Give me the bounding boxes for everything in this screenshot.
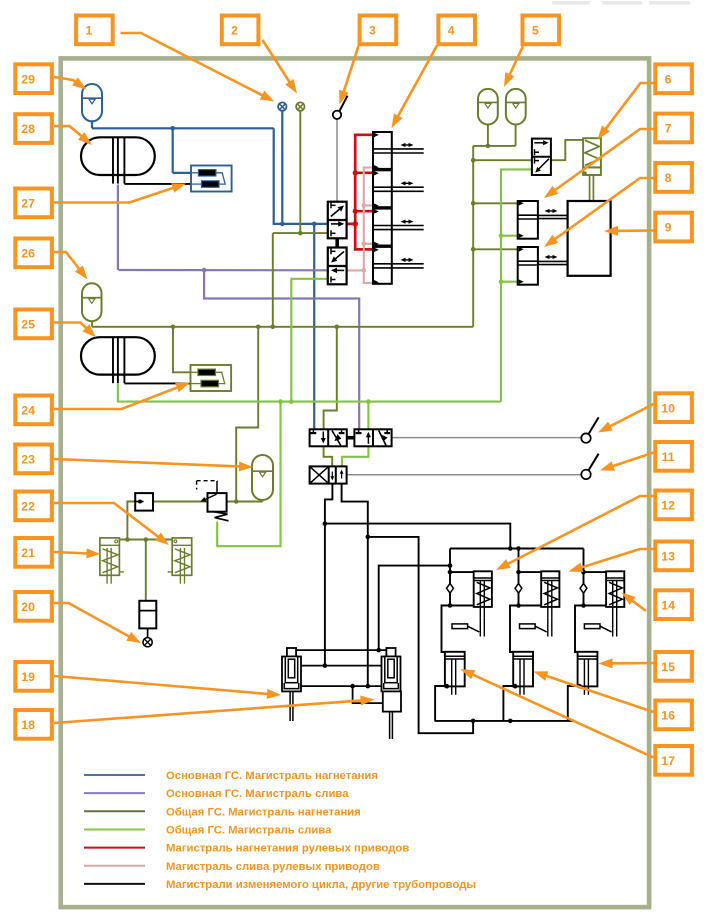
check box on regulator line — [135, 493, 153, 511]
callout box 20 — [15, 592, 52, 621]
callout arrow 15 — [606, 662, 653, 665]
svg-text:29: 29 — [21, 72, 35, 86]
wire gray: valve B to limit switch 10 — [392, 437, 582, 439]
wire black: shutoff valve left output — [325, 484, 333, 666]
legend line 1 — [84, 774, 145, 776]
wire olive: branch to actuator 8 — [473, 248, 518, 250]
node black junction 367.8,536.9 — [366, 535, 371, 540]
wire black: booster column at 518.5 — [518, 549, 520, 606]
wire olive: common pressure horizontal bus — [92, 326, 473, 328]
wire pink: branch to steering cylinder 2 return — [364, 204, 373, 206]
wire olive: drop to drain unit 20 — [145, 540, 147, 601]
wire olive: pilot valve D to relief valve 6 — [551, 140, 583, 160]
callout arrow 7 — [550, 129, 653, 194]
svg-text:5: 5 — [532, 24, 539, 38]
distribution valve V2 — [328, 248, 347, 285]
callout arrow 14 — [628, 597, 646, 611]
legend line 5 — [84, 847, 145, 849]
actuator 8 — [518, 247, 538, 285]
node blue junction at 314.2,223.9 — [312, 222, 317, 227]
wire black: branch to booster valve top — [450, 571, 474, 573]
wire black: pump 25 to cooler 24 — [124, 382, 190, 384]
wire olive: accumulator 23 stem — [262, 500, 264, 502]
wire black: column to booster cylinder — [442, 606, 451, 653]
changeover valve B — [354, 429, 391, 446]
callout box 15 — [655, 652, 692, 681]
wire blue: down to distribution valve V1 — [274, 128, 328, 224]
cooler 24 — [191, 365, 232, 391]
wire black: booster column at 583.5 — [583, 549, 585, 606]
wire olive: small box feed from filters — [127, 502, 135, 540]
svg-text:16: 16 — [661, 709, 675, 723]
wire blue: accumulator 29 to main pressure run — [91, 121, 93, 128]
wire black: booster cylinder to return bus — [503, 686, 513, 721]
valve V1-V2 mechanical link — [335, 238, 339, 247]
wire black: booster feed bus — [450, 548, 584, 550]
actuator 7 — [518, 201, 538, 239]
limit switch 11 — [581, 470, 590, 479]
callout arrow 25 — [54, 323, 91, 333]
callout arrow 13 — [576, 549, 654, 569]
wire purple: branch to changeover valve B — [204, 270, 359, 429]
wire red: steering pressure bus — [355, 135, 372, 250]
wire olive: valve A to shutoff valve — [324, 446, 333, 466]
wire black: booster column at 450 — [449, 549, 451, 606]
callout box 25 — [15, 310, 52, 339]
callout box 12 — [655, 491, 692, 520]
svg-text:22: 22 — [21, 500, 35, 514]
wire red: branch to steering cylinder 3 — [355, 210, 372, 213]
booster control valve — [474, 571, 492, 607]
callout box 17 — [655, 746, 692, 775]
relief valve 6 — [583, 138, 601, 167]
svg-text:12: 12 — [661, 499, 675, 513]
wire black: branch to booster assemblies header — [325, 524, 510, 549]
svg-text:23: 23 — [21, 453, 35, 467]
svg-text:15: 15 — [661, 660, 675, 674]
svg-text:25: 25 — [21, 318, 35, 332]
wire olive: branch down to changeover valve A — [324, 327, 337, 430]
wire pink: steering return bus — [364, 168, 373, 283]
callout box 7 — [655, 114, 692, 143]
wire olive: accumulators 5 header — [473, 145, 515, 147]
pump 25 — [81, 337, 155, 374]
callout box 13 — [655, 542, 692, 571]
wire black: column to booster cylinder — [510, 606, 519, 653]
callout arrow 27 — [54, 186, 179, 203]
callout box 10 — [655, 393, 692, 422]
callout box 1 — [76, 16, 113, 45]
callout arrow 16 — [541, 674, 654, 712]
callout box 29 — [15, 64, 52, 93]
svg-text:4: 4 — [448, 24, 455, 38]
pump 28 — [81, 137, 155, 175]
valve A-B mechanical link — [347, 436, 355, 440]
check valve diamond — [447, 583, 454, 593]
wire olive: regulator line small box to regulator — [153, 501, 208, 503]
wire light-green: branch up to valve V2 — [291, 279, 328, 402]
callout box 28 — [15, 114, 52, 143]
drain unit 20 — [139, 601, 156, 629]
wire black: booster cylinder to return bus — [568, 686, 578, 721]
legend line 7 — [84, 883, 145, 885]
callout box 26 — [15, 239, 52, 268]
callout box 5 — [523, 16, 560, 45]
pressure regulator — [208, 493, 227, 512]
accumulator 5 left — [478, 89, 498, 125]
wire olive: branch to actuator 7 — [473, 202, 518, 204]
legend line 2 — [84, 792, 145, 794]
callout arrow 19 — [54, 676, 273, 694]
callout box 23 — [15, 445, 52, 474]
wire pink: branch to steering cylinder 3 return — [364, 243, 373, 245]
wire olive: branch down to pressure regulator — [236, 327, 258, 502]
svg-text:Основная ГС. Магистраль нагнет: Основная ГС. Магистраль нагнетания — [166, 770, 378, 782]
wire black: tail actuator link to assembly column — [379, 566, 450, 651]
callout arrow 21 — [54, 552, 93, 554]
node black junction 324.9,523.6 — [323, 521, 328, 526]
svg-text:8: 8 — [665, 171, 672, 185]
accumulator 26 — [82, 283, 102, 321]
callout box 16 — [655, 701, 692, 730]
wire red: branch to steering cylinder 2 — [355, 171, 372, 174]
svg-text:Общая ГС. Магистраль слива: Общая ГС. Магистраль слива — [166, 824, 332, 836]
callout box 18 — [15, 710, 52, 739]
legend line 4 — [84, 828, 145, 830]
callout arrow 12 — [503, 496, 654, 567]
callout box 6 — [655, 64, 692, 93]
booster cylinder — [513, 652, 533, 687]
svg-text:21: 21 — [21, 546, 35, 560]
wire light-green: branch down to regulator drain — [217, 402, 280, 547]
booster feedback lever — [452, 624, 468, 629]
callout arrow 23 — [54, 459, 245, 467]
callout arrow 29 — [54, 77, 80, 85]
callout arrow 24 — [54, 385, 183, 409]
callout box 3 — [360, 16, 397, 45]
shutoff solenoid valve — [310, 466, 347, 483]
callout box 22 — [15, 492, 52, 521]
node blue junction at 172.7,128.3 — [170, 126, 175, 131]
svg-text:28: 28 — [21, 122, 35, 136]
callout box 9 — [655, 213, 692, 242]
callout arrow 2 — [263, 40, 293, 87]
svg-text:Общая ГС. Магистраль нагнетани: Общая ГС. Магистраль нагнетания — [166, 806, 361, 818]
wire black: column to booster cylinder — [575, 606, 584, 653]
wire light-green: branch to actuator 7 return — [501, 235, 518, 237]
wire black: branch to booster valve bottom — [519, 605, 542, 607]
wire light-green: pump 25 case drain — [118, 384, 501, 402]
svg-text:14: 14 — [661, 598, 675, 612]
svg-text:24: 24 — [21, 404, 35, 418]
wire blue: branch down to cooler 27 — [172, 128, 174, 173]
svg-text:6: 6 — [665, 72, 672, 86]
node olive at 236.2,501.5 — [234, 499, 239, 504]
callout box 21 — [15, 538, 52, 567]
wire gray: shutoff valve to limit switch 11 — [347, 474, 582, 476]
callout box 24 — [15, 396, 52, 425]
filter 21 — [100, 538, 120, 575]
svg-text:27: 27 — [21, 197, 35, 211]
node red junction at valve V1 feed — [352, 221, 358, 227]
callout arrow 10 — [605, 404, 654, 429]
callout arrow 22 — [54, 503, 163, 540]
callout arrow 28 — [54, 126, 86, 140]
wire olive: accumulator 26 stem — [91, 321, 93, 327]
svg-text:Основная ГС. Магистраль слива: Основная ГС. Магистраль слива — [166, 788, 349, 800]
wire black: branch to booster valve top — [584, 571, 607, 573]
svg-text:11: 11 — [662, 450, 675, 464]
wire gray: pressure switch feed from gauge switch 3 — [336, 119, 338, 201]
booster cylinder — [578, 652, 598, 687]
callout arrow 11 — [607, 453, 653, 469]
wire black: branch to booster valve bottom — [450, 605, 474, 607]
svg-text:20: 20 — [21, 600, 35, 614]
booster feedback lever — [520, 624, 536, 629]
svg-text:Магистраль слива рулевых приво: Магистраль слива рулевых приводов — [166, 861, 380, 873]
regulator spring — [214, 512, 229, 521]
booster cylinder — [445, 652, 465, 687]
legend line 3 — [84, 810, 145, 812]
wire black: branch to booster valve top — [519, 571, 542, 573]
svg-text:10: 10 — [661, 401, 675, 415]
wire light-green: branch down to changeover valve B — [367, 402, 369, 430]
wire black: shutoff valve right output — [342, 484, 368, 686]
wire black: booster cylinder to return bus — [435, 686, 445, 721]
node purple junction at 204.1,270 — [202, 268, 207, 273]
wire olive: branch up to gauge 2 run — [272, 233, 274, 327]
wire olive: regulator to accumulator 23 node — [227, 501, 263, 503]
wire olive: gauge 2 drop — [299, 111, 301, 233]
wire black: tail actuator top link — [296, 649, 386, 651]
wire red: valve V1 to steering pressure bus — [347, 223, 356, 226]
pressure switch 3 — [333, 111, 341, 119]
limit switch 10 — [581, 433, 590, 442]
wire black: booster return bus — [435, 720, 573, 722]
wire black: tail actuator mid link — [301, 665, 382, 667]
callout arrow 26 — [54, 252, 83, 273]
wire olive: gauge 2 run to valve V1 — [273, 232, 328, 234]
filter 22 — [172, 538, 192, 575]
callout arrow 6 — [602, 83, 653, 133]
wire olive: branch to pilot valve D — [473, 159, 532, 161]
booster control valve — [541, 571, 559, 607]
wire olive: relief valve 6 down to control box 9 — [589, 175, 591, 201]
callout box 14 — [655, 590, 692, 619]
callout arrow 8 — [550, 178, 653, 243]
check valve diamond — [515, 583, 522, 593]
distribution valve V1 — [328, 202, 347, 239]
svg-text:17: 17 — [661, 754, 675, 768]
tail actuator 19 (left unit) — [287, 648, 296, 657]
callout box 8 — [655, 163, 692, 192]
wire black: branch to booster valve bottom — [584, 605, 607, 607]
callout box 27 — [15, 189, 52, 218]
svg-text:3: 3 — [369, 24, 376, 38]
wire olive: common pressure bus vertical — [472, 146, 474, 327]
callout arrow 18 — [54, 700, 367, 723]
svg-text:13: 13 — [661, 550, 675, 564]
wire blue: main drop to changeover valve A — [313, 224, 315, 429]
wire light-green: branch to actuator 8 return — [501, 281, 518, 283]
accumulator 29 — [82, 84, 102, 121]
drain outlet circle-X 20 — [143, 638, 152, 647]
callout box 4 — [438, 16, 475, 45]
callout arrow 9 — [612, 229, 654, 232]
callout arrow 4 — [395, 46, 437, 122]
svg-text:18: 18 — [21, 718, 35, 732]
callout arrow 20 — [54, 603, 134, 639]
wire olive: branch down to cooler 24 — [173, 327, 191, 373]
svg-text:Магистраль нагнетания рулевых: Магистраль нагнетания рулевых приводов — [166, 843, 409, 855]
callout box 11 — [655, 442, 692, 471]
tail actuator 18 (right unit) — [386, 648, 395, 657]
wire light-green: valve B to shutoff valve — [342, 446, 368, 466]
wire olive: filters top bus — [119, 539, 172, 541]
gauge 1 blue circle-X — [278, 102, 286, 110]
schematic frame — [61, 58, 649, 907]
gauge 2 olive circle-X — [296, 102, 304, 110]
callout arrow 5 — [507, 46, 523, 80]
svg-text:9: 9 — [665, 221, 672, 235]
check valve diamond — [580, 583, 587, 593]
callout box 19 — [15, 662, 52, 691]
wire black: tail actuator lower link — [301, 685, 382, 687]
wire light-green: riser to pilot valve D — [501, 169, 532, 401]
wire black: drain loop to booster assemblies — [368, 537, 473, 733]
callout arrow 17 — [468, 672, 654, 757]
booster control valve — [606, 571, 624, 607]
wire blue: drop from gauge 1 — [281, 111, 283, 224]
pilot valve D — [532, 139, 551, 175]
wire purple: return from pump 28 — [117, 185, 119, 271]
callout arrow 1 — [121, 33, 268, 98]
control box 9 — [568, 201, 611, 276]
svg-text:1: 1 — [85, 24, 92, 38]
wire pink: valve V2 to steering return bus — [347, 269, 364, 271]
changeover valve A — [310, 429, 347, 446]
legend line 6 — [84, 865, 145, 867]
callout box 2 — [222, 16, 259, 45]
svg-text:Магистрали изменяемого цикла,: Магистрали изменяемого цикла, другие тру… — [166, 879, 476, 891]
steering cylinder bank 4 — [373, 132, 424, 170]
cooler 27 — [191, 166, 232, 192]
wire black: tail actuator lower jog — [353, 686, 383, 703]
callout arrow 3 — [342, 46, 359, 97]
accumulator 5 right — [506, 89, 526, 125]
toolbar remnant bars top-right — [552, 1, 690, 5]
svg-text:7: 7 — [665, 122, 672, 136]
wire black: pump 28 to cooler 27 — [124, 183, 191, 185]
booster feedback lever — [584, 624, 600, 629]
svg-text:2: 2 — [231, 24, 238, 38]
accumulator 23 — [252, 455, 273, 500]
svg-text:26: 26 — [21, 247, 35, 261]
svg-text:19: 19 — [21, 670, 35, 684]
